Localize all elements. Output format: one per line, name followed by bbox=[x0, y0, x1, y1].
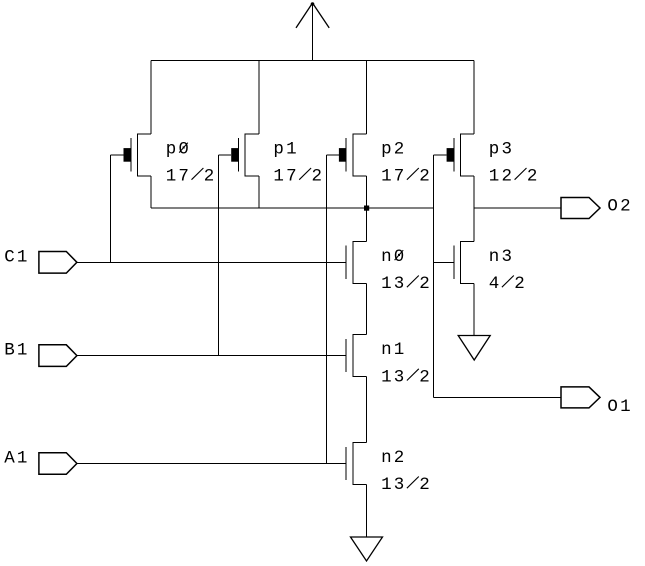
wire: p2 source stub bbox=[366, 61, 368, 134]
wire: NAND output net (node O1) horizontal bbox=[151, 207, 434, 209]
svg-text:2: 2 bbox=[514, 274, 527, 294]
transistor p1 bbox=[231, 134, 259, 176]
wire: A1 net horizontal bbox=[77, 463, 346, 465]
wire: n1 source to n2 drain bbox=[366, 377, 368, 443]
svg-text:2: 2 bbox=[204, 167, 217, 187]
transistor n3 bbox=[454, 241, 474, 283]
value label 13/2 (n2) bbox=[381, 475, 432, 495]
wire: p1 drain stub bbox=[258, 176, 260, 208]
svg-text:17: 17 bbox=[273, 167, 298, 187]
svg-text:p3: p3 bbox=[489, 139, 514, 159]
transistor p2 bbox=[339, 134, 367, 176]
transistor p0 bbox=[124, 134, 152, 176]
value label 17/2 (p2) bbox=[381, 167, 432, 187]
svg-text:O2: O2 bbox=[607, 196, 632, 216]
wire: C1 net horizontal bbox=[77, 261, 346, 263]
value label 13/2 (n0) bbox=[381, 274, 432, 294]
svg-text:17: 17 bbox=[381, 167, 406, 187]
wire: n2 source stub bbox=[366, 485, 368, 538]
value label 17/2 (p1) bbox=[273, 167, 324, 187]
wire: p2 gate wire bbox=[327, 154, 339, 156]
svg-text:2: 2 bbox=[312, 167, 325, 187]
wire: n0 source to n1 drain bbox=[366, 283, 368, 334]
power VDD symbol bbox=[296, 2, 329, 60]
svg-text:2: 2 bbox=[419, 274, 432, 294]
svg-text:p2: p2 bbox=[381, 139, 406, 159]
wire: p3 gate wire bbox=[434, 154, 447, 156]
transistor p3 bbox=[447, 134, 475, 176]
value label 13/2 (n1) bbox=[381, 367, 432, 387]
wire: B1 net horizontal bbox=[77, 355, 346, 357]
svg-text:p0: p0 bbox=[166, 139, 191, 159]
wire: n3 gate wire bbox=[434, 261, 454, 263]
value label 12/2 (p3) bbox=[489, 167, 540, 187]
svg-text:13: 13 bbox=[381, 367, 406, 387]
value label 4/2 (n3) bbox=[489, 274, 527, 294]
svg-text:n0: n0 bbox=[381, 247, 406, 267]
transistor n1 bbox=[346, 335, 366, 377]
wire: p2 drain stub bbox=[366, 176, 368, 208]
svg-text:n3: n3 bbox=[489, 247, 514, 267]
ground symbol under n2 bbox=[351, 537, 383, 561]
ground symbol under n3 bbox=[458, 336, 490, 361]
svg-text:2: 2 bbox=[527, 167, 540, 187]
svg-text:n2: n2 bbox=[381, 448, 406, 468]
wire: p1 gate wire bbox=[218, 154, 231, 156]
input port C1 bbox=[39, 252, 77, 274]
wire: O2 net horizontal bbox=[474, 207, 561, 209]
junction at p2 drain / n0 drain bbox=[364, 206, 369, 211]
slash of zero in p0 bbox=[179, 143, 188, 153]
wire: B1 to p1 gate vertical bbox=[217, 155, 219, 356]
svg-text:C1: C1 bbox=[4, 247, 29, 267]
wire: C1 to p0 gate vertical bbox=[110, 155, 112, 262]
svg-text:O1: O1 bbox=[607, 397, 632, 417]
wire: p1 source stub bbox=[258, 61, 260, 134]
wire: n3 source stub bbox=[473, 283, 475, 335]
wire: p0 drain stub bbox=[150, 176, 152, 208]
svg-text:17: 17 bbox=[166, 167, 191, 187]
svg-text:n1: n1 bbox=[381, 340, 406, 360]
wire: p0 gate wire bbox=[111, 154, 124, 156]
transistor n2 bbox=[346, 443, 366, 485]
svg-text:12: 12 bbox=[489, 167, 514, 187]
svg-text:2: 2 bbox=[419, 367, 432, 387]
wire: VDD rail bbox=[151, 60, 474, 62]
wire: p3 source stub bbox=[473, 61, 475, 134]
svg-text:2: 2 bbox=[419, 167, 432, 187]
svg-text:A1: A1 bbox=[4, 449, 29, 469]
output port O2 bbox=[561, 198, 600, 219]
input port B1 bbox=[39, 345, 77, 367]
svg-text:B1: B1 bbox=[4, 341, 29, 361]
transistor n0 bbox=[346, 241, 366, 283]
input port A1 bbox=[39, 453, 77, 475]
svg-text:13: 13 bbox=[381, 274, 406, 294]
slash of zero in n0 bbox=[395, 250, 404, 260]
svg-text:13: 13 bbox=[381, 475, 406, 495]
svg-text:2: 2 bbox=[419, 475, 432, 495]
output port O1 bbox=[561, 387, 600, 408]
wire: p3 drain to n3 drain bbox=[473, 176, 475, 242]
svg-text:p1: p1 bbox=[273, 139, 298, 159]
wire: A1 to p2 gate vertical bbox=[326, 155, 328, 464]
wire: n0 drain stub bbox=[366, 208, 368, 241]
svg-text:4: 4 bbox=[489, 274, 502, 294]
value label 17/2 (p0) bbox=[166, 167, 217, 187]
wire: inverter input vertical (node O1) bbox=[433, 155, 435, 398]
wire: p0 source stub bbox=[150, 61, 152, 134]
wire: O1 net horizontal bbox=[434, 396, 561, 398]
